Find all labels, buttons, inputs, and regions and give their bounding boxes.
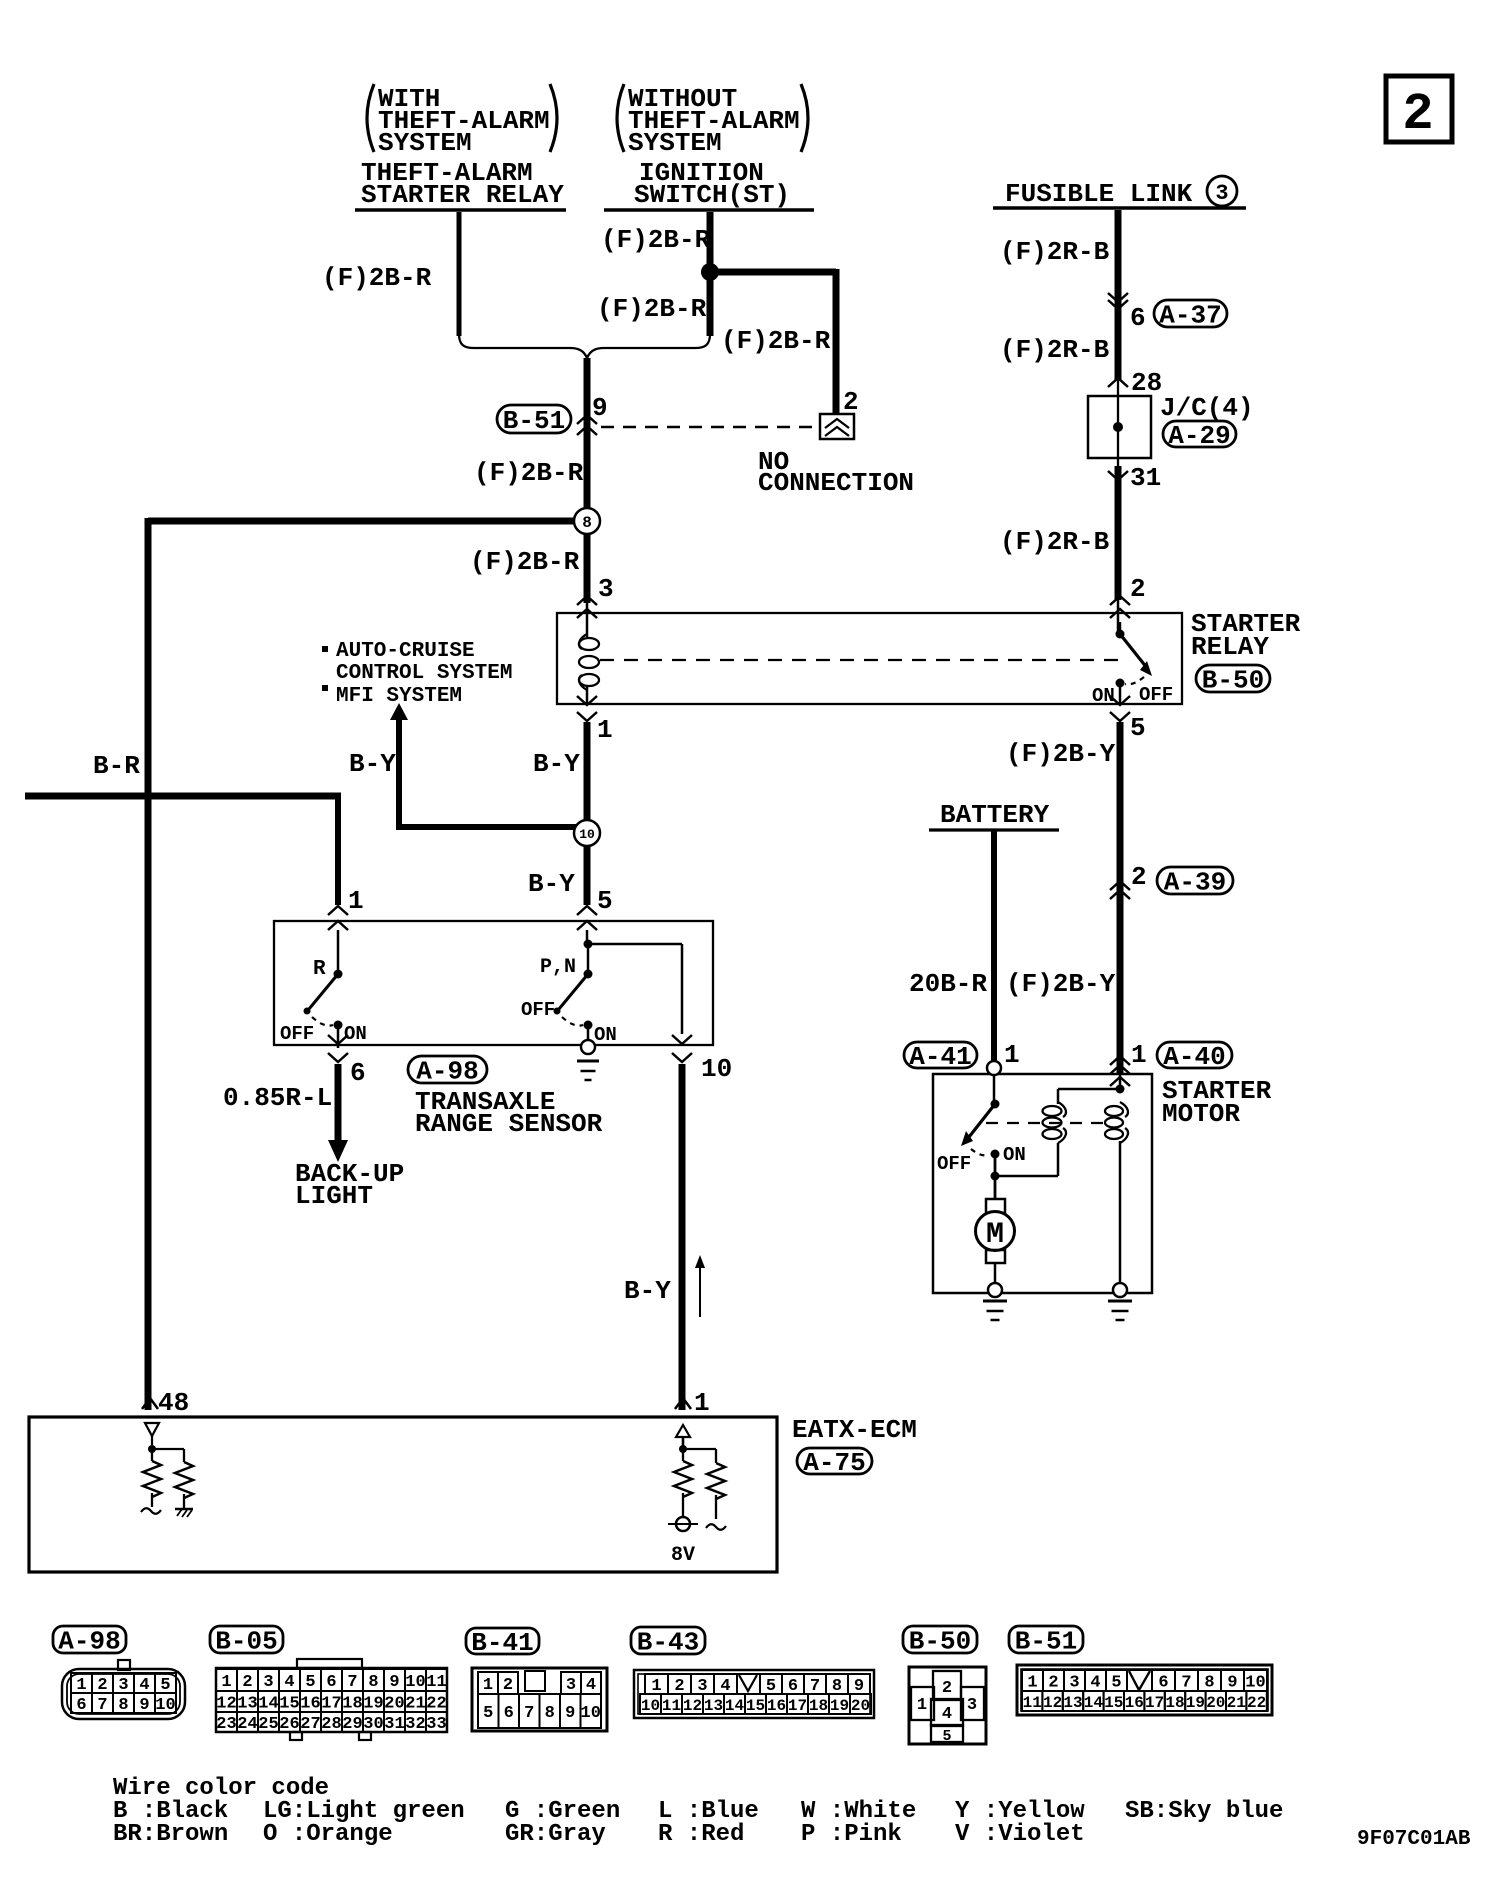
wire label B-Y mfi: [349, 749, 396, 779]
motor text ON: [1003, 1144, 1026, 1166]
pin number 1 A-41: [1004, 1040, 1020, 1070]
transaxle text ON R: [344, 1023, 367, 1045]
starter relay box: [557, 613, 1182, 704]
connector chevron EATX pin1: [675, 1398, 691, 1409]
svg-text:7: 7: [1181, 1674, 1191, 1693]
svg-text:MOTOR: MOTOR: [1162, 1099, 1240, 1129]
connector label A-75: [797, 1448, 872, 1478]
connector chevrons transaxle pin6: [328, 1035, 348, 1062]
svg-text:P :Pink: P :Pink: [801, 1821, 902, 1848]
svg-text:EATX-ECM: EATX-ECM: [792, 1415, 917, 1445]
wire into relay pin 3: [586, 603, 589, 637]
pin number 1 EATX: [694, 1388, 710, 1418]
svg-text:15: 15: [279, 1695, 299, 1714]
svg-text:7: 7: [524, 1704, 534, 1723]
svg-text:OFF: OFF: [1139, 684, 1173, 706]
pin number 5 transaxle: [597, 886, 613, 916]
no-connection terminal box: [820, 414, 854, 439]
ground right motor: [1108, 1301, 1132, 1320]
svg-text:A-98: A-98: [58, 1627, 120, 1657]
resistor R3 pin1: [674, 1449, 692, 1517]
text NO CONNECTION: [758, 447, 914, 498]
junction dot ignition branch: [701, 263, 719, 281]
transaxle text OFF R: [280, 1023, 314, 1045]
transaxle switch PN: [554, 930, 593, 1040]
connector label A-29: [1163, 421, 1236, 451]
svg-text:2: 2: [843, 387, 859, 417]
svg-text:A-37: A-37: [1159, 301, 1221, 331]
node circle 8: [574, 508, 600, 534]
svg-text:SYSTEM: SYSTEM: [378, 128, 472, 158]
svg-text:22: 22: [426, 1695, 446, 1714]
svg-text:A-29: A-29: [1168, 421, 1230, 451]
svg-text:13: 13: [237, 1695, 257, 1714]
svg-text:2: 2: [1048, 1674, 1058, 1693]
svg-text:32: 32: [405, 1715, 425, 1734]
connector label B-50: [1196, 665, 1270, 696]
svg-text:6: 6: [76, 1696, 86, 1715]
ground internal R2: [175, 1509, 193, 1517]
svg-text:10: 10: [405, 1673, 425, 1692]
svg-text:9F07C01AB: 9F07C01AB: [1357, 1828, 1471, 1851]
svg-text:GR:Gray: GR:Gray: [505, 1821, 606, 1848]
svg-text:V :Violet: V :Violet: [955, 1821, 1085, 1848]
svg-text:M: M: [986, 1218, 1004, 1252]
wire label (F)2B-R node8: [470, 547, 580, 577]
svg-text:B-05: B-05: [215, 1627, 277, 1657]
wire battery drop: [991, 830, 997, 1061]
wire label B-Y relay1: [533, 749, 580, 779]
svg-text:BR:Brown: BR:Brown: [113, 1821, 228, 1848]
svg-text:(F)2B-R: (F)2B-R: [474, 458, 584, 488]
wire into motor box pin1: [1110, 1074, 1130, 1091]
svg-text:5: 5: [1130, 713, 1146, 743]
svg-text:31: 31: [384, 1715, 404, 1734]
EATX-ECM box: [29, 1417, 777, 1572]
svg-text:(F)2B-Y: (F)2B-Y: [1006, 739, 1116, 769]
svg-text:(F)2B-R: (F)2B-R: [322, 263, 432, 293]
connector chevron pin 28: [1108, 378, 1128, 387]
wire node10 to pin 5: [584, 846, 591, 905]
svg-text:B-Y: B-Y: [533, 749, 580, 779]
svg-text:A-39: A-39: [1164, 868, 1226, 898]
svg-text:8: 8: [118, 1696, 128, 1715]
connector B-41 pinout: [466, 1628, 607, 1731]
text R: [313, 958, 326, 981]
svg-text:28: 28: [1131, 368, 1162, 398]
EATX input triangle pin48: [145, 1423, 159, 1445]
connector chevrons relay pin 5: [1110, 696, 1130, 721]
connector chevrons relay pin 2: [1110, 596, 1130, 618]
svg-text:14: 14: [725, 1697, 745, 1715]
annotation paren group WITHOUT THEFT-ALARM SYSTEM: [617, 84, 808, 158]
svg-text:12: 12: [216, 1695, 236, 1714]
wire label B-Y pin5: [528, 869, 575, 899]
component label THEFT-ALARM STARTER RELAY: [355, 158, 566, 210]
svg-text:(F)2B-Y: (F)2B-Y: [1006, 969, 1116, 999]
svg-text:19: 19: [363, 1695, 383, 1714]
pin number 6 fusible: [1130, 303, 1146, 333]
connector chevrons A-40: [1110, 1056, 1130, 1074]
wire back-up light with arrow: [328, 1064, 348, 1162]
pin number 1 A-40: [1131, 1040, 1147, 1070]
svg-text:A-40: A-40: [1163, 1042, 1225, 1072]
component label IGNITION SWITCH(ST): [604, 158, 814, 210]
svg-text:18: 18: [342, 1695, 362, 1714]
svg-text:9: 9: [1227, 1674, 1237, 1693]
svg-text:B-41: B-41: [471, 1628, 533, 1658]
connector label A-40: [1157, 1042, 1232, 1072]
svg-text:B-Y: B-Y: [528, 869, 575, 899]
wire B-R left vertical: [145, 518, 152, 1410]
connector label A-39: [1157, 867, 1233, 898]
transaxle switch R: [304, 930, 343, 1048]
svg-text:6: 6: [326, 1673, 336, 1692]
pin number 1 transaxle: [348, 886, 364, 916]
text 8V: [671, 1544, 695, 1567]
component label EATX-ECM: [792, 1415, 917, 1445]
svg-text:O :Orange: O :Orange: [263, 1821, 393, 1848]
connector chevrons A-39: [1110, 881, 1130, 899]
svg-text:13: 13: [1063, 1694, 1082, 1712]
wire label (F)2B-R ignition upper: [601, 225, 711, 255]
svg-text:J/C(4): J/C(4): [1160, 393, 1254, 423]
resistor R4 pin1: [707, 1463, 725, 1519]
svg-text:B-43: B-43: [637, 1628, 699, 1658]
svg-text:2: 2: [1130, 574, 1146, 604]
pin number 9: [592, 393, 608, 423]
wire label B-R: [93, 751, 140, 781]
resistor R1 open end: [141, 1508, 161, 1514]
svg-text:RANGE SENSOR: RANGE SENSOR: [415, 1109, 603, 1139]
svg-text:3: 3: [263, 1673, 273, 1692]
svg-text:B-Y: B-Y: [349, 749, 396, 779]
svg-text:16: 16: [1125, 1694, 1144, 1712]
svg-text:RELAY: RELAY: [1191, 632, 1269, 662]
relay text ON: [1092, 685, 1115, 707]
svg-text:22: 22: [1247, 1694, 1266, 1712]
connector B-43 pinout: [631, 1627, 874, 1718]
svg-text:21: 21: [405, 1695, 425, 1714]
pin number 2 A-39: [1131, 862, 1147, 892]
connector chevrons transaxle pin1: [328, 906, 348, 930]
wire label (F)2R-B 2: [1000, 335, 1110, 365]
wire label (F)2B-Y lower: [1006, 969, 1116, 999]
svg-text:5: 5: [597, 886, 613, 916]
svg-text:25: 25: [258, 1715, 278, 1734]
svg-text:16: 16: [767, 1697, 786, 1715]
component label STARTER MOTOR: [1162, 1076, 1272, 1129]
svg-text:7: 7: [97, 1696, 107, 1715]
svg-text:15: 15: [746, 1697, 765, 1715]
svg-text:10: 10: [641, 1697, 660, 1715]
component label TRANSAXLE RANGE SENSOR: [415, 1087, 603, 1139]
svg-text:ON: ON: [594, 1024, 617, 1046]
junction box J/C(4): [1088, 380, 1151, 466]
component label FUSIBLE LINK 3: [993, 176, 1246, 209]
wire label 20B-R: [909, 969, 987, 999]
wire label (F)2R-B 1: [1000, 237, 1110, 267]
wire label (F)2B-R below B-51: [474, 458, 584, 488]
wire fusible link upper: [1115, 210, 1122, 380]
svg-text:3: 3: [967, 1696, 977, 1715]
motor terminal circle A-41: [987, 1061, 1001, 1075]
text J/C(4): [1160, 393, 1254, 423]
svg-text:B-51: B-51: [1015, 1627, 1077, 1657]
connector pass-through chevrons B-51: [577, 415, 597, 435]
svg-text:A-75: A-75: [803, 1448, 865, 1478]
EATX input triangle pin1: [676, 1425, 690, 1446]
svg-text:11: 11: [662, 1697, 681, 1715]
wire label (F)2B-R ignition lower: [597, 294, 707, 324]
svg-text:1: 1: [1004, 1040, 1020, 1070]
svg-text:10: 10: [579, 827, 595, 842]
pin number 2 no-connection: [843, 387, 859, 417]
motor dashed actuation line: [986, 1122, 1108, 1124]
svg-text:8: 8: [582, 514, 592, 532]
svg-text:6: 6: [1158, 1674, 1168, 1693]
svg-text:31: 31: [1130, 463, 1161, 493]
svg-text:17: 17: [788, 1697, 807, 1715]
svg-text:3: 3: [1069, 1674, 1079, 1693]
wire ignition switch drop (F)2B-R: [707, 212, 714, 336]
svg-text:2: 2: [503, 1676, 513, 1695]
svg-text:15: 15: [1104, 1694, 1123, 1712]
wire to pull-in coil: [995, 1143, 1058, 1176]
resistor R4 open end: [706, 1524, 726, 1530]
wire relay coil bottom: [586, 687, 589, 704]
wire label (F)2B-Y upper: [1006, 739, 1116, 769]
svg-text:CONNECTION: CONNECTION: [758, 468, 914, 498]
svg-text:20: 20: [1206, 1694, 1225, 1712]
pin number 31: [1130, 463, 1161, 493]
svg-text:B-51: B-51: [503, 406, 565, 436]
connector B-51 pinout: [1009, 1626, 1272, 1715]
svg-text:LIGHT: LIGHT: [295, 1181, 373, 1211]
svg-text:1: 1: [221, 1673, 231, 1692]
svg-text:AUTO-CRUISE: AUTO-CRUISE: [336, 640, 475, 663]
wire label (F)2B-R theft-alarm: [322, 263, 432, 293]
svg-text:0.85R-L: 0.85R-L: [223, 1083, 332, 1113]
svg-text:2: 2: [242, 1673, 252, 1692]
svg-text:14: 14: [258, 1695, 278, 1714]
svg-text:1: 1: [348, 886, 364, 916]
pin number 3 starter relay: [598, 574, 614, 604]
relay text OFF: [1139, 684, 1173, 706]
transaxle text OFF PN: [521, 999, 555, 1021]
svg-text:9: 9: [139, 1696, 149, 1715]
relay switch: [1116, 622, 1153, 704]
pin number 28: [1131, 368, 1162, 398]
svg-text:ON: ON: [344, 1023, 367, 1045]
pull-in coil: [1043, 1102, 1066, 1143]
connector label A-98: [408, 1056, 487, 1087]
motor switch lower wire: [991, 1158, 1000, 1199]
pin number 2 relay top: [1130, 574, 1146, 604]
svg-text:6: 6: [1130, 303, 1146, 333]
svg-text:8: 8: [545, 1704, 555, 1723]
svg-text:20: 20: [851, 1697, 870, 1715]
svg-text:CONTROL SYSTEM: CONTROL SYSTEM: [336, 662, 512, 685]
junction dot hold coil: [1116, 1085, 1125, 1094]
svg-text:SYSTEM: SYSTEM: [628, 128, 722, 158]
svg-text:BATTERY: BATTERY: [940, 800, 1050, 830]
text P,N: [540, 956, 576, 979]
svg-text:5: 5: [483, 1704, 493, 1723]
ground transaxle: [577, 1061, 599, 1080]
svg-text:17: 17: [321, 1695, 341, 1714]
svg-text:1: 1: [597, 715, 613, 745]
svg-text:10: 10: [701, 1054, 732, 1084]
svg-text:27: 27: [300, 1715, 320, 1734]
wire main drop below brace: [584, 358, 591, 603]
connector A-98 pinout: [53, 1626, 185, 1719]
svg-text:4: 4: [942, 1705, 952, 1724]
svg-text:5: 5: [1111, 1674, 1121, 1693]
svg-text:16: 16: [300, 1695, 320, 1714]
text MFI SYSTEM: [322, 685, 462, 708]
svg-text:A-98: A-98: [416, 1057, 478, 1087]
svg-text:5: 5: [942, 1728, 951, 1745]
svg-text:1: 1: [483, 1676, 493, 1695]
ground left motor: [983, 1301, 1007, 1320]
hold-in coil: [1105, 1102, 1128, 1143]
svg-text:P,N: P,N: [540, 956, 576, 979]
svg-text:3: 3: [1215, 181, 1228, 206]
svg-text:9: 9: [592, 393, 608, 423]
connector chevrons relay pin 1: [577, 696, 597, 721]
wire relay pin1 to node 10: [584, 722, 591, 820]
wire label 0.85R-L: [223, 1083, 332, 1113]
page number box 2: [1386, 76, 1452, 144]
pin number 5 relay bottom: [1130, 713, 1146, 743]
resistor R1 pin48: [143, 1449, 161, 1507]
svg-text:17: 17: [1145, 1694, 1164, 1712]
component label STARTER RELAY: [1191, 609, 1301, 662]
transaxle ground terminal: [581, 1040, 595, 1054]
pin number 1 relay bottom: [597, 715, 613, 745]
svg-text:1: 1: [1131, 1040, 1147, 1070]
svg-text:3: 3: [598, 574, 614, 604]
drawing number 9F07C01AB: [1357, 1828, 1471, 1851]
resistor R2 pin48: [175, 1462, 193, 1508]
svg-text:20B-R: 20B-R: [909, 969, 987, 999]
svg-text:3: 3: [566, 1676, 576, 1695]
wire label (F)2B-R branch: [721, 326, 831, 356]
wire label B-Y bottom: [624, 1276, 671, 1306]
wire horizontal to node 8: [148, 518, 574, 525]
text BACK-UP LIGHT: [295, 1159, 404, 1211]
svg-text:(F)2R-B: (F)2R-B: [1000, 335, 1110, 365]
text AUTO-CRUISE CONTROL SYSTEM: [322, 640, 512, 685]
connector chevron EATX pin48: [142, 1398, 158, 1409]
svg-text:6: 6: [504, 1704, 514, 1723]
svg-text:6: 6: [350, 1058, 366, 1088]
svg-text:4: 4: [284, 1673, 294, 1692]
wire pull-in coil top: [1058, 1089, 1120, 1104]
connector chevrons transaxle pin10: [672, 1035, 692, 1062]
direction arrow B-Y: [695, 1255, 705, 1317]
connector chevrons A-37: [1108, 293, 1128, 309]
svg-text:48: 48: [158, 1388, 189, 1418]
svg-text:28: 28: [321, 1715, 341, 1734]
pin number 48: [158, 1388, 189, 1418]
svg-text:OFF: OFF: [280, 1023, 314, 1045]
svg-text:(F)2R-B: (F)2R-B: [1000, 237, 1110, 267]
svg-text:18: 18: [809, 1697, 828, 1715]
wire relay pin5 down: [1117, 722, 1124, 1074]
motor ground terminal left: [988, 1283, 1002, 1297]
wire fusible link lower: [1115, 466, 1122, 634]
svg-text:R: R: [313, 958, 326, 981]
svg-text:(F)2R-B: (F)2R-B: [1000, 527, 1110, 557]
svg-text:(F)2B-R: (F)2B-R: [721, 326, 831, 356]
svg-text:A-41: A-41: [909, 1042, 971, 1072]
EATX pin48 junction: [148, 1445, 184, 1462]
svg-text:2: 2: [942, 1679, 952, 1698]
svg-text:(F)2B-R: (F)2B-R: [601, 225, 711, 255]
component label BATTERY: [929, 800, 1059, 830]
svg-text:24: 24: [237, 1715, 257, 1734]
wire theft-alarm relay drop (F)2B-R: [457, 212, 462, 336]
svg-text:14: 14: [1084, 1694, 1104, 1712]
svg-text:7: 7: [347, 1673, 357, 1692]
connector label A-37: [1154, 300, 1227, 331]
svg-text:B-50: B-50: [909, 1627, 971, 1657]
svg-text:11: 11: [1023, 1694, 1042, 1712]
svg-text:SB:Sky blue: SB:Sky blue: [1125, 1798, 1283, 1825]
svg-text:20: 20: [384, 1695, 404, 1714]
wire horizontal mid left: [25, 793, 341, 800]
annotation paren group WITH THEFT-ALARM SYSTEM: [367, 84, 557, 158]
connector B-50 pinout: [903, 1626, 986, 1745]
svg-text:4: 4: [586, 1676, 596, 1695]
svg-text:B-50: B-50: [1202, 666, 1264, 696]
svg-text:4: 4: [1090, 1674, 1100, 1693]
starter motor box: [933, 1074, 1152, 1293]
connector label B-51: [497, 405, 571, 436]
EATX pin1 junction: [679, 1445, 716, 1463]
svg-text:19: 19: [830, 1697, 849, 1715]
transaxle text ON PN: [594, 1024, 617, 1046]
dashed link to no-connection: [601, 426, 818, 429]
motor M: [976, 1199, 1015, 1284]
connector chevrons relay pin 3: [577, 596, 597, 618]
svg-text:1: 1: [1027, 1674, 1037, 1693]
svg-text:23: 23: [216, 1715, 236, 1734]
svg-text:R :Red: R :Red: [658, 1821, 744, 1848]
motor ground terminal right: [1113, 1283, 1127, 1297]
svg-text:B-Y: B-Y: [624, 1276, 671, 1306]
svg-text:10: 10: [1245, 1674, 1265, 1693]
pin number 10: [701, 1054, 732, 1084]
connector label A-41: [904, 1042, 977, 1072]
node circle 10: [574, 820, 600, 846]
svg-text:10: 10: [155, 1696, 175, 1715]
transaxle range sensor box: [274, 921, 713, 1045]
svg-text:OFF: OFF: [937, 1153, 971, 1175]
motor switch: [961, 1075, 1000, 1159]
svg-text:12: 12: [1043, 1694, 1062, 1712]
svg-text:1: 1: [917, 1696, 927, 1715]
svg-text:B-R: B-R: [93, 751, 140, 781]
svg-text:33: 33: [426, 1715, 446, 1734]
svg-text:OFF: OFF: [521, 999, 555, 1021]
svg-text:9: 9: [389, 1673, 399, 1692]
svg-text:SWITCH(ST): SWITCH(ST): [634, 180, 790, 210]
brace merging wires: [459, 334, 710, 358]
svg-text:9: 9: [565, 1704, 575, 1723]
